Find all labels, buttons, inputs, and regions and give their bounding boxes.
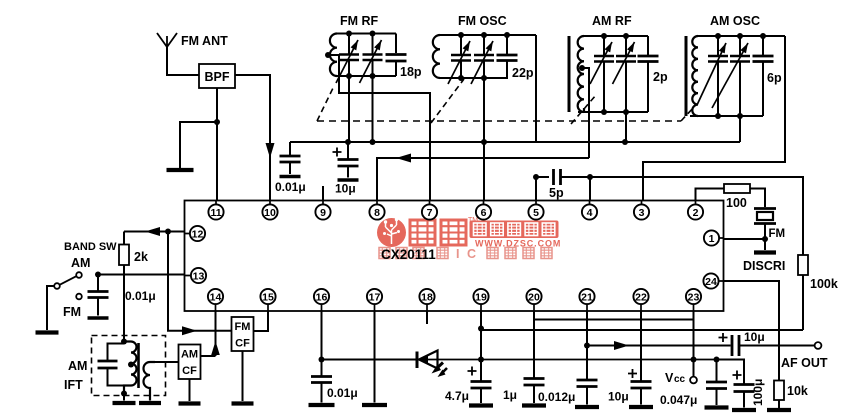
svg-text:BAND SW: BAND SW [64, 241, 117, 253]
variable capacitor CV2 arrow head [374, 40, 381, 50]
svg-text:FM RF: FM RF [340, 14, 379, 28]
AM OSC core bar [685, 36, 688, 116]
variable capacitor CV7 arrow head [719, 43, 726, 53]
variable capacitor CV3 arrow head [463, 41, 470, 51]
op-amp U1 CX20111 IC body [185, 201, 724, 312]
node AM line [95, 272, 101, 278]
wire pin 21 down [586, 311, 588, 380]
variable capacitor CV8 arrow shaft [712, 43, 748, 108]
resistor 10k [774, 381, 784, 401]
svg-text:0.012μ: 0.012μ [538, 390, 575, 404]
arrowhead on pin8 wire [396, 154, 411, 163]
node FM RF coil tap [325, 52, 331, 58]
wire node to 100μ [717, 360, 745, 385]
ground of FM CF [232, 401, 254, 405]
node AM RF top var2 [623, 33, 629, 39]
wire rail to C 10μ [347, 142, 349, 160]
wire to pin 4 [589, 177, 591, 201]
capacitor 1μ [524, 379, 545, 386]
pin 8 of U1 [369, 204, 384, 219]
svg-text:0.01μ: 0.01μ [275, 180, 306, 194]
wire BPF output to pin 10 [235, 75, 270, 201]
svg-text:2: 2 [693, 207, 699, 219]
ground near BPF [167, 168, 194, 172]
node rail AM RF branch [622, 139, 628, 145]
svg-text:14: 14 [210, 291, 222, 303]
node IFT primary bottom ground [121, 391, 127, 397]
arrowhead on BPF-pin10 wire [266, 143, 275, 158]
wire 2k bottom to AM IFT [123, 265, 125, 342]
variable capacitor CV8 plates [730, 56, 750, 62]
wire AM RF var2 node down to rail [625, 112, 627, 142]
dashed gang riser AM OSC [681, 107, 694, 121]
wire AM OSC C-fix bottom stub [762, 62, 764, 117]
svg-text:IFT: IFT [64, 378, 83, 392]
ground of band switch [36, 330, 59, 334]
capacitor 0.047μ [706, 382, 727, 389]
pin 1 of U1 [704, 230, 719, 245]
capacitor 100μ electrolytic [734, 385, 755, 392]
plus of 10μ pin22 [628, 369, 637, 378]
plus of 10μ cap [333, 148, 342, 157]
variable capacitor CV5 arrow shaft [590, 42, 612, 84]
svg-text:0.047μ: 0.047μ [660, 393, 697, 407]
svg-text:FM: FM [63, 305, 81, 319]
pin 14 of U1 [208, 289, 223, 304]
svg-text:V: V [665, 371, 674, 385]
capacitor 5p (horizontal) [554, 169, 561, 185]
capacitor 10μ AF coupling (horizontal) [732, 335, 739, 356]
svg-text:10k: 10k [787, 384, 808, 398]
svg-text:9: 9 [320, 207, 326, 219]
wire FM RF varcap1 stubs [348, 34, 350, 77]
wire AM OSC varcap2 stubs [739, 36, 741, 116]
pin 10 of U1 [262, 204, 277, 219]
svg-text:23: 23 [688, 291, 700, 303]
wire FM OSC to pin 6 [483, 78, 485, 201]
node FM OSC bottom var1 [458, 75, 464, 81]
node FM RF bottom var2 [370, 73, 376, 79]
inductor L4 AM OSC coil [692, 36, 698, 116]
wire to 2k top [123, 232, 125, 245]
resistor 100 [724, 184, 750, 193]
svg-text:6p: 6p [767, 71, 782, 85]
wire pin 19 down [480, 311, 482, 382]
capacitor 0.01μ pin16 [311, 377, 332, 383]
filter AM CF [179, 345, 201, 380]
ground of pin 17 [362, 403, 387, 407]
watermark slogan glyphs [379, 248, 390, 259]
wire 1μ to ground [533, 385, 535, 403]
svg-text:18p: 18p [400, 65, 422, 79]
svg-text:6: 6 [481, 207, 487, 219]
node FM OSC bottom var2 [481, 75, 487, 81]
node IFT primary tap [128, 362, 134, 368]
svg-text:2k: 2k [134, 250, 148, 264]
switch FM contact [76, 294, 82, 300]
svg-text:10μ: 10μ [608, 390, 629, 404]
wire 4.7μ to ground [480, 388, 482, 403]
wire AM node to C 0.01μ [97, 275, 99, 292]
node FM OSC top var2 [481, 32, 487, 38]
arrowhead on pin12 wire [145, 227, 160, 236]
wire 0.012μ to ground [586, 387, 588, 405]
wire pin 18 stub [426, 311, 428, 324]
ground of IFT secondary [139, 401, 161, 405]
wire 5p to pin4 node [561, 176, 591, 178]
node IFT primary top [121, 339, 127, 345]
capacitor 4.7μ electrolytic [471, 382, 492, 389]
dashed gang riser FM RF [317, 86, 334, 121]
pin stubs to IC edge [185, 201, 724, 312]
wire AM RF C-fix bottom stub [647, 62, 649, 113]
capacitor 10μ pin22 [631, 382, 652, 389]
svg-text:DISCRI: DISCRI [743, 259, 785, 273]
pin 11 of U1 [208, 204, 223, 219]
variable capacitor CV5 arrow head [605, 42, 613, 52]
wire IFT cap bottom to primary bottom [108, 368, 125, 386]
svg-text:15: 15 [262, 291, 274, 303]
svg-text:0.01μ: 0.01μ [327, 386, 358, 400]
inductor L1 FM RF coil [330, 34, 337, 77]
wire AM OSC varcap1 stubs [717, 36, 719, 116]
svg-text:13: 13 [193, 270, 205, 282]
node FM RF top var2 [370, 31, 376, 37]
svg-text:0.01μ: 0.01μ [125, 289, 156, 303]
pin 23 of U1 [686, 289, 701, 304]
wire pin 14 down [215, 311, 217, 356]
svg-text:19: 19 [475, 291, 487, 303]
wire FM OSC varcap2 stubs [483, 35, 485, 78]
variable capacitor CV2 plates [363, 55, 383, 61]
wire AM RF coil bottom join [583, 108, 585, 112]
variable capacitor CV2 arrow shaft [360, 40, 382, 83]
wire 2k top to pin 12 [124, 231, 185, 233]
ground of discriminator [754, 250, 776, 254]
variable capacitor CV3 arrow shaft [448, 41, 470, 84]
svg-text:10μ: 10μ [335, 182, 356, 196]
pin 21 of U1 [579, 289, 594, 304]
junction BPF ground branch [214, 119, 220, 125]
node Vcc decoupling [714, 357, 720, 363]
node AM RF bottom var1 [601, 109, 607, 115]
wire AM OSC bottom rail [690, 115, 763, 117]
svg-text:2p: 2p [653, 70, 668, 84]
pin 17 of U1 [367, 289, 382, 304]
wire AM OSC bottom to AGC rail end [739, 116, 741, 142]
node rail 10μ [345, 139, 351, 145]
wire node16 to diode [322, 359, 416, 361]
wire pin 17 to ground [374, 311, 376, 403]
node pin 5 [533, 174, 539, 180]
svg-text:FM OSC: FM OSC [458, 14, 507, 28]
wire pin 9 stub [322, 186, 324, 201]
svg-text:AF OUT: AF OUT [781, 356, 828, 370]
wire BPF bottom to pin 11 [216, 88, 218, 201]
node AM RF coil tap [579, 65, 585, 71]
ground of 10k [767, 408, 791, 412]
wire discriminator to node [764, 224, 766, 240]
pin 20 of U1 [526, 289, 541, 304]
resistor 2k [119, 245, 129, 266]
svg-text:cc: cc [674, 374, 686, 385]
capacitor 18p fixed [386, 55, 407, 62]
svg-text:12: 12 [192, 228, 204, 240]
wire FM RF var2 node down to rail [372, 76, 374, 142]
wire FM RF varcap2 stubs [372, 34, 374, 77]
svg-text:10: 10 [264, 207, 276, 219]
wire FM RF var1 node down to AGC rail [348, 76, 350, 142]
resistor 100k [798, 255, 808, 275]
svg-text:AM: AM [71, 256, 90, 270]
ground of band switch cap [88, 316, 109, 320]
wire AM RF tap down [582, 68, 589, 158]
svg-text:100: 100 [726, 196, 747, 210]
node FM OSC top fixed [504, 32, 510, 38]
wire node to pin 1 [724, 238, 766, 240]
variable capacitor CV6 arrow shaft [613, 42, 635, 84]
AM IFT dashed enclosure [92, 336, 166, 396]
wire AM RF tap to pin 8 [377, 158, 589, 201]
wire AM RF varcap2 stubs [625, 36, 627, 112]
wire junction to ground [180, 122, 217, 168]
node pin 16 [319, 357, 325, 363]
variable capacitor CV4 arrow head [486, 41, 493, 51]
node AM RF top var1 [601, 33, 607, 39]
pin 12 of U1 [190, 226, 205, 241]
node AM OSC top fixed [760, 33, 766, 39]
svg-text:1: 1 [709, 233, 715, 245]
wire pin4 node to 100k top [590, 177, 803, 255]
variable capacitor CV4 arrow shaft [471, 41, 493, 84]
pin 6 of U1 [476, 204, 491, 219]
variable capacitor CV4 plates [474, 55, 494, 61]
ground of IFT primary [113, 401, 136, 405]
pin 3 of U1 [634, 204, 649, 219]
wire antenna to BPF [167, 47, 199, 75]
pin 22 of U1 [633, 289, 648, 304]
wire FM RF coil tap to pin 7 [328, 55, 430, 201]
wire pin 23 down [693, 311, 695, 377]
svg-text:100k: 100k [810, 277, 838, 291]
wire AM OSC C-fix top stub [762, 36, 764, 56]
svg-text:I: I [456, 247, 459, 261]
inductor L3 AM RF coil [578, 36, 584, 112]
svg-text:1μ: 1μ [503, 388, 517, 402]
svg-text:C: C [467, 247, 476, 261]
pin 19 of U1 [473, 289, 488, 304]
wire switch common to ground [47, 286, 54, 330]
svg-text:4: 4 [587, 207, 593, 219]
svg-text:5: 5 [533, 207, 539, 219]
pin 13 of U1 [191, 268, 206, 283]
LED tuning indicator diode [416, 352, 419, 369]
variable capacitor CV6 plates [616, 56, 636, 62]
svg-text:FM: FM [769, 228, 786, 240]
ground of 10μ pin22 [629, 405, 653, 409]
node AM OSC bottom var2 [737, 113, 743, 119]
switch common contact [54, 283, 60, 289]
wire IFT primary to ground [123, 394, 125, 401]
node rail FM RF var2 [370, 139, 376, 145]
capacitor in AM IFT [98, 361, 118, 368]
wire IFT secondary to AM CF [155, 361, 179, 363]
watermark logo circle [377, 218, 406, 247]
wire AM OSC top rail [698, 35, 785, 37]
svg-text:FM: FM [235, 321, 251, 333]
FM antenna [157, 33, 177, 47]
ground of 4.7μ [469, 403, 493, 407]
wire AM RF bottom rail [578, 111, 648, 113]
pin 5 of U1 [528, 204, 543, 219]
node pin12 branch [165, 229, 171, 235]
wire FM OSC top rail [440, 34, 536, 36]
svg-text:FM ANT: FM ANT [181, 34, 228, 48]
ground of 1μ [522, 403, 546, 407]
svg-text:21: 21 [581, 291, 593, 303]
wire FM CF to ground [242, 351, 244, 401]
wire AM OSC rail to pin 3 [643, 36, 785, 201]
watermark red band [470, 221, 559, 239]
switch AM contact [76, 272, 82, 278]
svg-text:17: 17 [369, 291, 381, 303]
wire FM RF top rail [337, 33, 396, 35]
wire pin19 node to 100k bottom [481, 329, 803, 331]
svg-text:3: 3 [639, 207, 645, 219]
inductor L2 FM OSC coil [433, 35, 440, 78]
IFT core bars [137, 343, 140, 388]
ground of 10μ top cap [338, 178, 359, 182]
capacitor 2p fixed [638, 56, 659, 62]
wire node to 0.047μ [716, 360, 718, 383]
wire FM OSC bottom rail [440, 77, 508, 79]
wire pin 16 down [321, 311, 323, 360]
wire AM CF output [201, 355, 216, 357]
IFT primary coil [124, 342, 137, 394]
wire AGC rail [290, 141, 740, 143]
wire 100μ to ground [743, 392, 745, 408]
dashed gang line [317, 120, 681, 122]
wire C to ground bar [97, 298, 99, 316]
wire FM OSC C-fix top stub [506, 35, 508, 55]
svg-text:AM: AM [181, 349, 198, 361]
variable capacitor CV7 plates [708, 56, 728, 62]
variable capacitor CV1 arrow head [351, 40, 358, 50]
arrowhead on FM CF line [182, 326, 197, 335]
svg-text:CX20111: CX20111 [381, 247, 436, 262]
pin 16 of U1 [314, 289, 329, 304]
watermark brand glyphs [410, 220, 435, 245]
variable capacitor CV7 arrow shaft [697, 43, 726, 105]
variable capacitor CV5 plates [594, 56, 614, 62]
AM RF core bar [568, 36, 571, 112]
pin 2 of U1 [688, 204, 703, 219]
node rail pin6 wire [481, 139, 487, 145]
wire FM RF bottom rail [337, 75, 396, 77]
terminal AF OUT [815, 342, 822, 349]
node AM OSC top var2 [737, 33, 743, 39]
pin 15 of U1 [260, 289, 275, 304]
svg-text:24: 24 [705, 276, 717, 288]
svg-text:18: 18 [421, 291, 433, 303]
wire AF line to coupling cap [587, 345, 731, 347]
wire C-fix bottom to rail [395, 61, 397, 76]
capacitor 22p fixed [497, 55, 518, 61]
arrowhead on AF line [614, 341, 629, 350]
svg-text:AM OSC: AM OSC [710, 14, 760, 28]
node FM RF top var1 [346, 31, 352, 37]
node AM OSC bottom var1 [715, 113, 721, 119]
capacitor 0.01μ top-left [280, 156, 301, 162]
arrowhead on AM CF output [211, 341, 220, 355]
IFT secondary coil [144, 362, 156, 401]
capacitor 6p fixed [753, 56, 774, 62]
wire node to ground [764, 239, 766, 250]
node pin 21 AF [584, 343, 590, 349]
wire pin20 to pin23 upper link [534, 319, 694, 321]
pin 24 of U1 [703, 273, 718, 288]
variable capacitor CV6 arrow head [627, 42, 635, 52]
svg-text:10μ: 10μ [744, 330, 765, 344]
wire cap to ground [321, 383, 323, 403]
wire FM RF to C-fix top [395, 34, 397, 54]
svg-text:100μ: 100μ [751, 379, 765, 406]
svg-text:8: 8 [374, 207, 380, 219]
wire AM RF top rail [584, 35, 648, 37]
wire IFT cap top to primary top [108, 344, 125, 362]
wire 0.047μ to ground [716, 389, 718, 406]
wire pin 2 to resistor 100 [696, 189, 725, 201]
wire to pin 5 [535, 177, 537, 201]
wire FM OSC varcap1 stubs [460, 35, 462, 78]
wire AM RF C-fix top stub [647, 36, 649, 56]
variable capacitor CV1 arrow shaft [336, 40, 358, 83]
svg-text:AM RF: AM RF [592, 14, 632, 28]
svg-text:CF: CF [235, 338, 250, 350]
wire pin5 node to 5p cap [536, 176, 549, 178]
svg-text:CF: CF [182, 365, 197, 377]
wire C 10μ to ground bar [347, 166, 349, 178]
svg-text:22p: 22p [512, 66, 534, 80]
ground of 0.047μ [705, 405, 729, 409]
filter FM CF [232, 317, 254, 351]
node FM OSC top var1 [458, 32, 464, 38]
wire coupling cap to AF OUT [739, 345, 815, 347]
node pin 19 rail [478, 357, 484, 363]
svg-text:16: 16 [316, 291, 328, 303]
terminal Vcc [690, 377, 697, 384]
wire 100k bottom down [802, 275, 804, 330]
plus of 100μ [733, 371, 742, 380]
svg-text:AM: AM [68, 359, 87, 373]
ceramic discriminator element [754, 209, 776, 224]
svg-text:11: 11 [210, 207, 221, 219]
wire AM RF varcap1 stubs [603, 36, 605, 112]
wire 10μ to ground [640, 388, 642, 405]
node pin 4 [587, 174, 593, 180]
wire pin12 node down to FM CF line [168, 232, 232, 331]
capacitor 0.01μ band switch [88, 292, 109, 298]
ground of 0.01μ top cap [280, 175, 301, 179]
wire FM CF to pin 15 [254, 311, 269, 331]
svg-text:22: 22 [635, 291, 647, 303]
pin 7 of U1 [422, 204, 437, 219]
wire AM CF to ground [189, 379, 191, 401]
pin 4 of U1 [582, 204, 597, 219]
wire pin 24 to 10k [724, 281, 780, 381]
node Vcc rail pin23 [691, 357, 697, 363]
wire resistor 100 to discriminator [750, 189, 765, 208]
